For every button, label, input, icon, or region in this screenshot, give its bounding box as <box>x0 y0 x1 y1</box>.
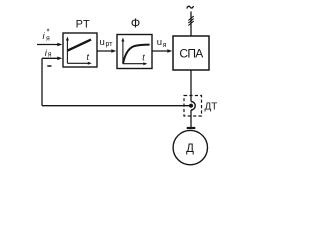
svg-text:u: u <box>100 37 105 48</box>
input i*я wire <box>37 44 60 46</box>
Ф graph horizontal axis <box>123 63 145 65</box>
wire СПА to sensor (upper segment) <box>190 70 192 102</box>
block Ф (filter) <box>117 35 152 69</box>
svg-text:я: я <box>163 42 167 49</box>
block СПА (converter) <box>173 36 209 70</box>
svg-text:Д: Д <box>186 143 194 155</box>
svg-text:Ф: Ф <box>131 16 141 30</box>
wire: AC supply to SPA block <box>190 12 192 37</box>
svg-text:u: u <box>157 37 162 48</box>
input iя feedback wire into РТ <box>42 57 60 59</box>
svg-text:ДТ: ДТ <box>205 102 218 113</box>
Ф characteristic curve <box>123 45 150 64</box>
AC supply symbol ~ <box>187 6 194 9</box>
svg-text:я: я <box>46 36 50 43</box>
three-phase slash marks <box>188 16 193 20</box>
motor Д circle <box>173 130 207 164</box>
РТ graph vertical axis <box>66 39 68 64</box>
feedback wire vertical <box>41 58 43 105</box>
wire Ф to СПА <box>152 50 170 52</box>
РТ characteristic line <box>68 40 91 51</box>
РТ graph horizontal axis <box>67 62 89 64</box>
svg-text:СПА: СПА <box>179 46 203 60</box>
motor terminal bar <box>187 127 196 129</box>
svg-text:РТ: РТ <box>76 19 91 31</box>
sensor loop arc <box>191 102 195 111</box>
wire sensor to motor (lower segment) <box>190 110 192 128</box>
wire РТ to Ф <box>97 50 114 52</box>
svg-text:рт: рт <box>106 41 114 48</box>
node dot <box>189 104 193 108</box>
Ф graph vertical axis <box>122 40 124 64</box>
current sensor ДТ dashed box <box>184 96 202 117</box>
block РТ (current regulator) <box>63 33 97 67</box>
feedback wire horizontal <box>42 105 189 107</box>
minus sign <box>47 65 51 67</box>
svg-text:я: я <box>48 52 52 59</box>
